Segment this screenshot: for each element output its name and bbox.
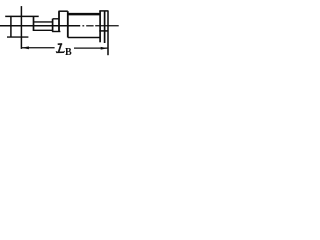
column top edge bbox=[59, 10, 68, 12]
right arrowhead bbox=[101, 47, 108, 50]
dimension line right segment bbox=[74, 47, 108, 49]
label L bbox=[56, 44, 65, 53]
end cap left vertical bbox=[99, 11, 101, 42]
support left vertical bbox=[10, 16, 12, 37]
end cap middle vertical bbox=[104, 11, 106, 43]
axis solid segment bbox=[0, 25, 80, 27]
column left side bbox=[58, 11, 60, 32]
wheel top edge thick bbox=[68, 13, 100, 16]
end cap top edge bbox=[99, 10, 108, 12]
shoulder vertical bbox=[33, 16, 35, 30]
end cap bottom edge bbox=[99, 30, 108, 32]
column right side bbox=[67, 11, 69, 37]
housing top edge bbox=[53, 18, 60, 20]
end cap right vertical with extension line bbox=[107, 11, 109, 55]
sleeve bottom edge bbox=[33, 29, 53, 31]
axis dash bbox=[86, 25, 93, 27]
support right vertical with extension line bbox=[20, 6, 22, 49]
left arrowhead bbox=[22, 46, 29, 49]
axis dot bbox=[82, 25, 84, 27]
wheel bottom edge bbox=[68, 37, 100, 39]
support base bbox=[7, 36, 28, 38]
axis dash 2 bbox=[95, 25, 119, 27]
housing left edge bbox=[52, 19, 54, 32]
housing bottom edge bbox=[52, 31, 60, 33]
svg-text:B: B bbox=[65, 47, 72, 58]
dimension line left segment bbox=[22, 47, 55, 49]
rod top edge bbox=[5, 15, 39, 17]
sleeve top edge bbox=[33, 21, 52, 23]
